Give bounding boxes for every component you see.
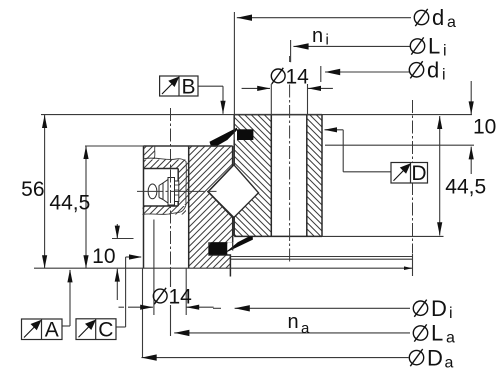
svg-text:10: 10 <box>473 116 496 139</box>
svg-text:i: i <box>326 32 329 49</box>
svg-text:56: 56 <box>21 178 44 201</box>
svg-text:D: D <box>427 345 443 370</box>
svg-text:44,5: 44,5 <box>49 191 90 214</box>
svg-text:i: i <box>443 43 447 60</box>
svg-text:n: n <box>288 311 299 333</box>
svg-text:i: i <box>442 67 446 84</box>
svg-text:D: D <box>431 296 447 321</box>
svg-text:B: B <box>181 76 195 99</box>
svg-text:D: D <box>411 162 426 185</box>
svg-text:A: A <box>45 319 59 342</box>
svg-text:L: L <box>431 321 443 346</box>
svg-text:L: L <box>428 34 440 59</box>
svg-text:a: a <box>445 354 454 371</box>
svg-text:a: a <box>301 320 310 337</box>
svg-text:44,5: 44,5 <box>445 176 486 199</box>
svg-text:i: i <box>449 305 453 322</box>
svg-text:C: C <box>98 319 113 342</box>
svg-text:14: 14 <box>286 65 310 88</box>
svg-text:a: a <box>447 14 456 31</box>
svg-text:a: a <box>446 330 455 347</box>
svg-text:d: d <box>432 5 444 30</box>
svg-text:d: d <box>427 58 439 83</box>
svg-text:n: n <box>312 25 323 47</box>
svg-text:10: 10 <box>92 245 115 268</box>
svg-text:14: 14 <box>169 285 193 308</box>
